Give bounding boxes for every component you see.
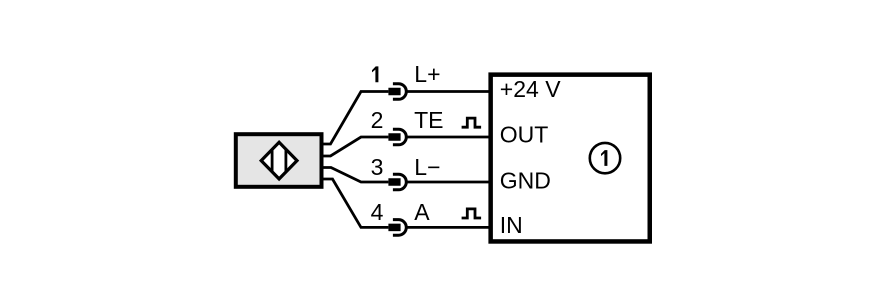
svg-text:+24 V: +24 V [500, 76, 561, 102]
svg-text:2: 2 [371, 107, 384, 133]
svg-text:3: 3 [371, 154, 384, 180]
svg-text:IN: IN [500, 212, 523, 238]
svg-text:4: 4 [371, 199, 384, 225]
svg-text:L−: L− [414, 154, 440, 180]
svg-text:TE: TE [414, 107, 443, 133]
svg-text:L+: L+ [414, 61, 440, 87]
svg-text:OUT: OUT [500, 122, 549, 148]
svg-text:GND: GND [500, 167, 551, 193]
svg-text:A: A [414, 199, 430, 225]
